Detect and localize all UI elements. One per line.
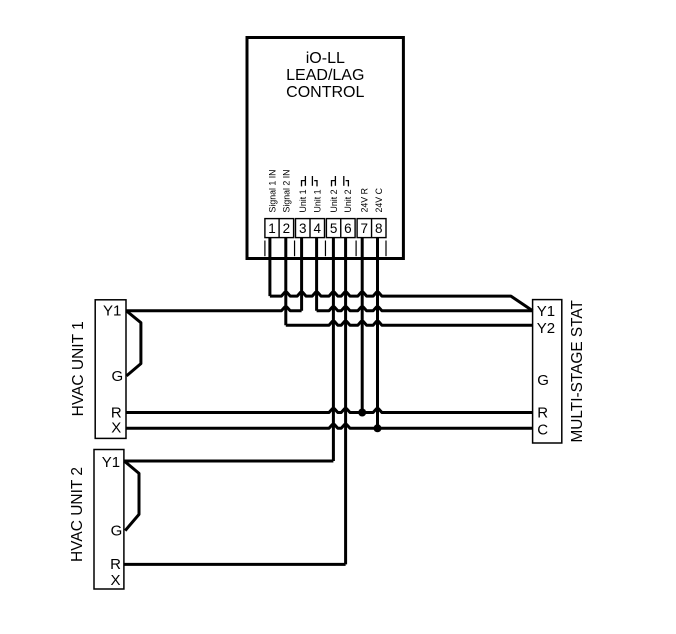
wire from terminal 8 vertical drop: [376, 238, 379, 428]
svg-text:G: G: [111, 368, 123, 385]
svg-text:G: G: [537, 372, 549, 389]
svg-text:3: 3: [299, 221, 307, 236]
svg-text:1: 1: [268, 221, 276, 236]
svg-text:R: R: [537, 404, 548, 421]
wire terminal 5 Unit 2 to HVAC unit 2 Y1: [124, 460, 334, 463]
U1 title text: [286, 50, 364, 101]
svg-text:CONTROL: CONTROL: [286, 84, 364, 101]
HVAC UNIT 2 box: [94, 450, 124, 590]
svg-text:Unit 1: Unit 1: [298, 189, 308, 212]
HVAC UNIT 1 box: [95, 300, 126, 439]
wire HVAC unit 1 R to stat R (24V R bus): [126, 409, 533, 413]
svg-text:HVAC UNIT 1: HVAC UNIT 1: [70, 321, 87, 416]
wire terminal 3 Unit 1 to HVAC unit 1 Y1: [126, 307, 302, 311]
wire from terminal 6 vertical drop: [344, 238, 347, 564]
MULTI-STAGE STAT box: [533, 300, 562, 443]
svg-text:R: R: [110, 556, 121, 573]
svg-text:24V R: 24V R: [360, 188, 370, 212]
terminal 5 contact symbol: [332, 176, 336, 186]
svg-text:X: X: [111, 420, 121, 437]
svg-text:8: 8: [375, 221, 383, 236]
svg-text:Unit 2: Unit 2: [329, 189, 339, 212]
wire HVAC unit 1 X to stat C (24V C bus): [126, 425, 533, 429]
wire from terminal 4 vertical drop: [315, 238, 318, 311]
svg-text:5: 5: [330, 221, 338, 236]
svg-text:Unit 1: Unit 1: [313, 189, 323, 212]
svg-text:Y1: Y1: [102, 454, 120, 471]
svg-text:MULTI-STAGE STAT: MULTI-STAGE STAT: [569, 299, 586, 442]
terminal 4 contact symbol: [312, 176, 317, 186]
svg-text:2: 2: [283, 221, 291, 236]
junction dot terminal 7 24V R on R bus: [358, 409, 366, 417]
svg-text:X: X: [110, 572, 120, 589]
svg-text:Signal 1 IN: Signal 1 IN: [267, 169, 277, 212]
svg-text:C: C: [537, 421, 548, 438]
svg-text:24V C: 24V C: [374, 187, 384, 212]
wire terminal 4 Unit 1 to stat Y1: [317, 307, 533, 311]
jumper wire HVAC unit 2 Y1 to G: [124, 461, 139, 531]
svg-text:7: 7: [361, 221, 369, 236]
wire from terminal 1 vertical drop: [268, 238, 271, 296]
svg-text:6: 6: [344, 221, 352, 236]
svg-text:Y1: Y1: [537, 303, 555, 320]
wire terminal 6 Unit 2 to HVAC unit 2 R: [124, 563, 346, 566]
terminal block group 1-2: [265, 219, 294, 238]
terminal 6 contact symbol: [344, 176, 349, 186]
svg-text:Y1: Y1: [103, 303, 121, 320]
terminal block group 3-4: [296, 219, 325, 238]
wire from terminal 2 vertical drop: [284, 238, 287, 325]
terminal block lower edge ticks: [265, 241, 386, 257]
terminal 3 contact symbol: [302, 176, 306, 186]
wire from terminal 7 vertical drop: [361, 238, 364, 413]
jumper wire HVAC unit 1 Y1 to G: [126, 311, 141, 376]
svg-text:Y2: Y2: [537, 320, 555, 337]
svg-text:HVAC UNIT 2: HVAC UNIT 2: [69, 467, 86, 562]
svg-text:G: G: [111, 523, 123, 540]
svg-text:Unit 2: Unit 2: [343, 189, 353, 212]
svg-text:iO-LL: iO-LL: [306, 50, 345, 67]
terminal block group 7-8: [357, 219, 386, 238]
iO-LL lead/lag control box U1: [247, 38, 403, 259]
svg-text:4: 4: [313, 221, 321, 236]
terminal block group 5-6: [326, 219, 355, 238]
svg-text:LEAD/LAG: LEAD/LAG: [286, 67, 364, 84]
wire from terminal 3 vertical drop: [300, 238, 303, 311]
wire from terminal 5 vertical drop: [332, 238, 335, 461]
svg-text:Signal 2 IN: Signal 2 IN: [282, 169, 292, 212]
wire terminal 1 Signal 1 IN to stat Y1 (bus with hops and diagonal): [270, 292, 533, 311]
junction dot terminal 8 24V C on C bus: [374, 424, 382, 432]
wire terminal 2 Signal 2 IN to stat Y2: [286, 321, 533, 325]
